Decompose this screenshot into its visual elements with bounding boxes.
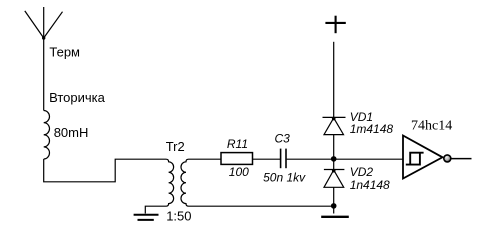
svg-text:50n 1kv: 50n 1kv <box>263 171 306 185</box>
ground bar at diodes <box>321 216 349 218</box>
svg-text:R11: R11 <box>227 137 248 151</box>
svg-text:Терм: Терм <box>49 44 80 59</box>
svg-text:1m4148: 1m4148 <box>350 122 394 136</box>
transformer Tr2 primary winding <box>145 159 173 213</box>
svg-text:1n4148: 1n4148 <box>350 178 390 192</box>
antenna feed dot <box>42 36 45 39</box>
hysteresis symbol inside U1 <box>406 153 424 165</box>
svg-text:Вторичка: Вторичка <box>49 90 106 105</box>
svg-text:80mH: 80mH <box>54 125 89 140</box>
inverter bubble <box>444 155 451 162</box>
wire antenna to coil <box>43 38 45 111</box>
wire + to VD1 <box>333 42 335 118</box>
ground at transformer <box>134 215 159 220</box>
svg-text:1:50: 1:50 <box>166 209 191 224</box>
svg-text:74hc14: 74hc14 <box>411 119 452 134</box>
transformer Tr2 secondary winding <box>181 159 334 206</box>
wire resistor to capacitor <box>253 158 281 160</box>
diode VD2 <box>324 170 345 214</box>
svg-text:100: 100 <box>229 165 249 179</box>
output wire <box>451 158 472 160</box>
resistor R11 <box>221 153 253 165</box>
antenna <box>25 7 63 38</box>
node junction dot (signal) <box>331 156 337 162</box>
capacitor C3 <box>281 149 286 169</box>
svg-text:Tr2: Tr2 <box>166 139 185 154</box>
inductor L 80mH <box>44 111 50 159</box>
svg-text:C3: C3 <box>275 132 291 146</box>
wire coil to transformer (step) <box>44 159 166 182</box>
inverter U1 74hc14 triangle <box>403 136 443 179</box>
svg-text:VD2: VD2 <box>350 165 374 179</box>
diode VD1 <box>323 117 346 169</box>
node junction dot (ground side) <box>331 203 337 209</box>
wire capacitor to gate <box>287 158 403 160</box>
power + terminal <box>325 16 345 34</box>
